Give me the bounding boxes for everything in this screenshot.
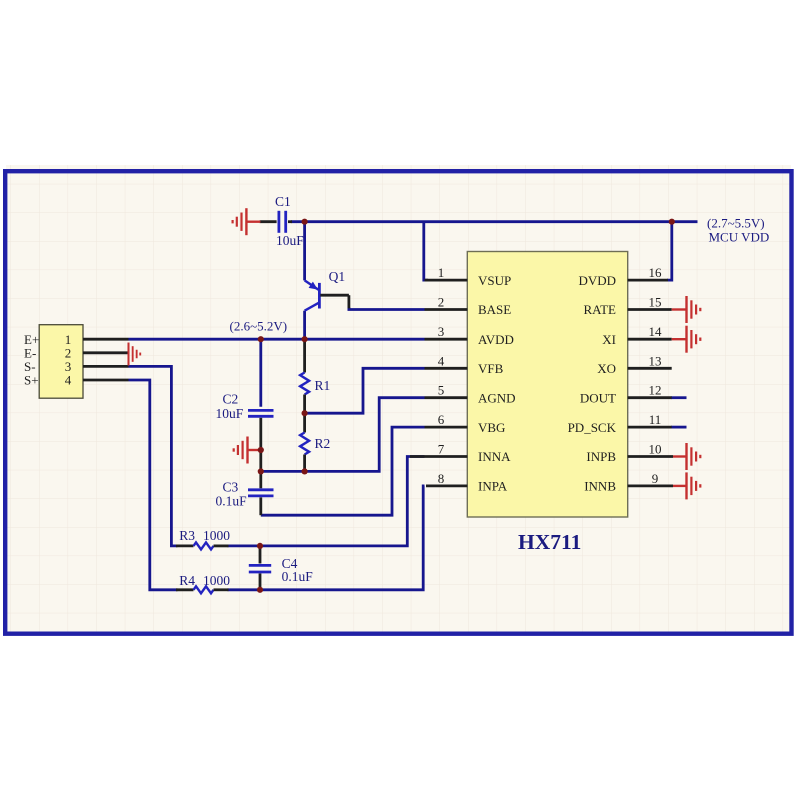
svg-text:C3: C3	[223, 479, 239, 494]
resistor R2	[300, 413, 309, 471]
pin 5 stub	[425, 396, 468, 399]
wire: Q1 base to BASE pin2	[349, 307, 425, 309]
pin 8 stub	[426, 484, 467, 487]
svg-text:INPA: INPA	[478, 479, 508, 494]
pin 4 stub	[425, 367, 468, 370]
svg-text:INPB: INPB	[586, 449, 616, 464]
svg-text:1000: 1000	[203, 528, 230, 543]
svg-text:INNA: INNA	[478, 449, 511, 464]
junction node VCC-pin16	[669, 219, 675, 225]
wire: S+ run to R4 row	[129, 380, 178, 590]
connector pin 2 stub	[83, 351, 129, 354]
pin 10 stub	[628, 455, 673, 458]
svg-text:R1: R1	[315, 378, 331, 393]
svg-text:AVDD: AVDD	[478, 332, 514, 347]
pin 2 stub	[425, 308, 468, 311]
svg-text:9: 9	[652, 471, 659, 486]
svg-text:1000: 1000	[203, 573, 230, 588]
connector P1 box	[39, 325, 83, 399]
svg-text:0.1uF: 0.1uF	[216, 493, 248, 508]
svg-text:13: 13	[649, 353, 662, 368]
svg-text:AGND: AGND	[478, 390, 516, 405]
wire: top VCC rail	[291, 220, 698, 223]
ground at C2	[234, 437, 261, 464]
svg-text:16: 16	[649, 265, 663, 280]
pin 1 stub	[425, 279, 468, 282]
wire: R3 row to INNA pin7	[228, 457, 425, 546]
svg-text:C2: C2	[223, 392, 239, 407]
wire: VBG pin6 to C3 bottom	[261, 427, 425, 515]
resistor R1	[300, 339, 309, 413]
svg-text:10uF: 10uF	[276, 233, 304, 248]
wire: PD_SCK pin11 stub wire	[671, 426, 687, 429]
svg-text:VFB: VFB	[478, 361, 504, 376]
svg-text:DVDD: DVDD	[578, 273, 616, 288]
svg-text:6: 6	[438, 412, 445, 427]
connector pin 4 stub	[83, 379, 129, 382]
transistor Q1	[305, 280, 349, 310]
pin 3 stub	[425, 338, 468, 341]
svg-text:RATE: RATE	[584, 302, 617, 317]
capacitor C3	[248, 471, 274, 515]
capacitor C4	[249, 546, 271, 590]
pin 13 stub	[628, 367, 672, 370]
capacitor C2	[248, 410, 274, 471]
pin 9 stub	[628, 484, 673, 487]
svg-text:12: 12	[649, 383, 662, 398]
junction node R1-R2-VFB	[302, 410, 308, 416]
svg-text:10uF: 10uF	[216, 406, 244, 421]
junction node R3-C4	[257, 543, 263, 549]
resistor R3	[176, 542, 229, 549]
wire: DOUT pin12 stub wire	[671, 396, 687, 399]
pin 12 stub	[628, 396, 672, 399]
svg-text:2: 2	[438, 295, 445, 310]
junction node AVDD-Q1	[302, 336, 308, 342]
svg-text:R3: R3	[179, 528, 195, 543]
wire: AVDD row E+ to pin3	[129, 338, 425, 341]
ground at pin 10 INPB	[673, 443, 700, 470]
svg-text:HX711: HX711	[518, 530, 581, 554]
svg-text:PD_SCK: PD_SCK	[568, 420, 617, 435]
wire: pin1 VSUP drop from rail	[424, 222, 428, 280]
svg-text:14: 14	[649, 324, 663, 339]
wire: C1 junction down to Q1 emitter	[303, 222, 306, 281]
resistor R4	[176, 586, 229, 593]
svg-text:INNB: INNB	[584, 479, 616, 494]
ground at pin 9 INNB	[673, 472, 700, 499]
svg-text:(2.6~5.2V): (2.6~5.2V)	[230, 319, 288, 334]
svg-text:S+: S+	[24, 373, 39, 388]
junction node R4-C4	[257, 587, 263, 593]
svg-text:3: 3	[438, 324, 445, 339]
svg-text:XO: XO	[597, 361, 616, 376]
svg-text:11: 11	[649, 412, 662, 427]
svg-text:R2: R2	[315, 436, 331, 451]
wire: VFB pin4 to R1/R2 node	[305, 368, 425, 413]
svg-text:DOUT: DOUT	[580, 390, 616, 405]
capacitor C1	[260, 211, 292, 233]
wire: Q1 collector to AVDD row	[303, 311, 306, 340]
svg-text:4: 4	[65, 373, 72, 388]
svg-text:15: 15	[649, 295, 662, 310]
wire: R4 row to INPA pin8	[228, 486, 425, 590]
svg-text:1: 1	[438, 265, 445, 280]
ground at pin 14 XI	[672, 326, 701, 353]
svg-text:5: 5	[438, 383, 445, 398]
pin 11 stub	[628, 426, 672, 429]
ground at E- pin	[129, 343, 141, 366]
svg-text:BASE: BASE	[478, 302, 511, 317]
svg-text:XI: XI	[602, 332, 616, 347]
pin 15 stub	[628, 308, 672, 311]
svg-text:(2.7~5.5V): (2.7~5.5V)	[707, 216, 765, 231]
svg-text:8: 8	[438, 471, 445, 486]
ground at pin 15 RATE	[672, 296, 701, 323]
wire: pin16 DVDD drop from rail	[667, 222, 672, 280]
pin 16 stub	[628, 279, 668, 282]
pin 7 stub	[410, 455, 467, 458]
IC U1 HX711 body	[467, 252, 627, 518]
sheet border frame	[5, 171, 791, 634]
svg-text:VSUP: VSUP	[478, 273, 511, 288]
svg-text:MCU VDD: MCU VDD	[709, 230, 770, 245]
junction node AVDD-C2	[258, 336, 264, 342]
svg-text:4: 4	[438, 353, 445, 368]
pin 14 stub	[628, 338, 672, 341]
junction node VCC-C1	[302, 219, 308, 225]
wire: AGND pin5 run	[261, 398, 425, 472]
svg-text:7: 7	[438, 442, 445, 457]
ground at C1	[233, 208, 261, 235]
connector pin 1 stub	[83, 338, 129, 341]
svg-text:10: 10	[649, 442, 662, 457]
svg-text:Q1: Q1	[329, 269, 346, 284]
svg-text:C1: C1	[275, 194, 291, 209]
svg-text:VBG: VBG	[478, 420, 505, 435]
wire: S- run to R3 row	[129, 366, 178, 546]
pin 6 stub	[425, 426, 468, 429]
junction node C2-ground	[258, 447, 264, 453]
wire: C2 top lead from AVDD row	[259, 339, 262, 407]
junction node AGND-R2	[302, 468, 308, 474]
connector pin 3 stub	[83, 365, 129, 368]
svg-text:R4: R4	[179, 573, 195, 588]
junction node AGND-C3	[258, 468, 264, 474]
svg-text:0.1uF: 0.1uF	[282, 569, 314, 584]
